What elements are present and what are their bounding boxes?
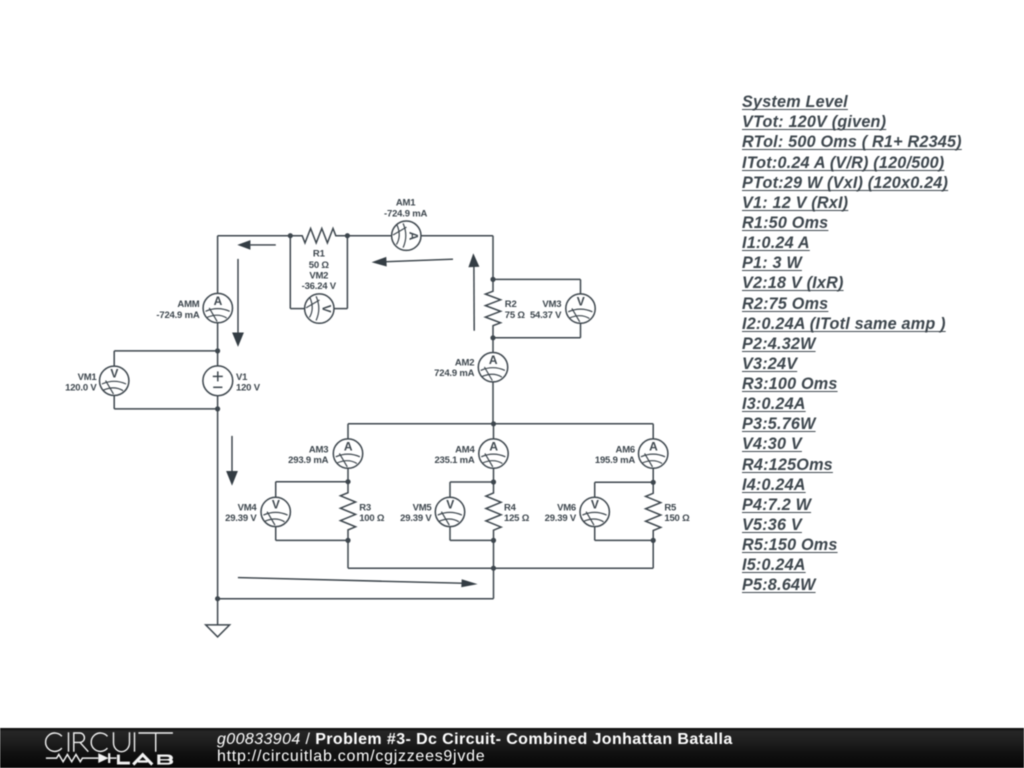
svg-text:VM4: VM4 [238,503,258,514]
svg-text:R4: R4 [504,503,517,514]
svg-text:VM2: VM2 [309,271,328,282]
wire [595,539,654,541]
svg-text:A: A [649,439,658,453]
wire [652,424,654,439]
svg-text:A: A [407,232,421,241]
wire [217,396,219,599]
svg-text:V: V [591,498,599,512]
svg-text:VM1: VM1 [78,372,98,383]
svg-text:75 Ω: 75 Ω [505,310,526,321]
wire [348,423,653,425]
voltmeter VM2 [302,271,337,324]
wire [493,568,495,599]
ammeter AM3 [288,439,363,468]
wire [594,526,596,540]
svg-text:AM3: AM3 [309,444,328,455]
svg-text:A: A [489,353,498,367]
resistor R3 [340,482,384,541]
voltmeter VM4 [225,497,290,526]
resistor R4 [486,482,530,540]
svg-text:R3: R3 [359,503,371,514]
wire [334,308,347,310]
current direction arrow [238,578,478,588]
svg-text:AM1: AM1 [396,198,416,209]
ammeter AM4 [434,439,508,468]
ammeter AM2 [434,353,508,382]
svg-text:29.39 V: 29.39 V [545,513,577,524]
svg-text:120 V: 120 V [236,382,261,393]
footer bar [0,728,1024,768]
wire [580,279,582,294]
wire [595,481,654,483]
wire [113,396,115,409]
wire [492,236,494,280]
junction [491,421,496,426]
resistor R2 [485,279,525,337]
wire [290,308,304,310]
junction [288,233,293,238]
junction [215,596,220,601]
svg-text:A: A [489,439,498,453]
voltmeter VM3 [530,294,595,323]
voltmeter VM5 [400,497,465,526]
wire [493,278,581,280]
wire [114,350,217,352]
wire [594,482,596,497]
svg-text:A: A [214,294,223,308]
svg-text:V1: V1 [236,372,248,383]
wire [276,481,348,483]
svg-text:R5: R5 [664,503,677,514]
wire [493,540,495,568]
svg-text:-724.9 mA: -724.9 mA [156,310,199,321]
ground [206,599,230,637]
svg-text:AMM: AMM [177,299,199,310]
wire [580,323,582,338]
svg-text:235.1 mA: 235.1 mA [434,455,474,466]
ammeter AMM [156,293,232,322]
wire [275,482,277,498]
system level analysis notes [742,92,962,596]
svg-text:150 Ω: 150 Ω [664,513,690,524]
svg-text:29.39 V: 29.39 V [400,513,432,524]
svg-text:V: V [446,498,454,512]
junction [491,479,496,484]
wire [218,598,494,600]
svg-text:AM4: AM4 [455,444,475,455]
svg-text:VM3: VM3 [542,299,561,310]
junction [345,479,350,484]
junction [491,566,496,571]
resistor R1 [290,229,347,271]
svg-text:724.9 mA: 724.9 mA [434,368,474,379]
CircuitLab logo [46,732,173,751]
junction [345,233,350,238]
wire [347,235,391,237]
svg-text:125 Ω: 125 Ω [504,513,530,524]
wire [347,424,349,439]
svg-text:AM6: AM6 [616,444,635,455]
wire [492,338,494,353]
svg-text:29.39 V: 29.39 V [225,513,257,524]
wire [276,539,348,541]
svg-text:V: V [110,367,118,381]
wire [652,540,654,568]
current direction arrow [372,257,453,267]
svg-text:100 Ω: 100 Ω [359,513,385,524]
wire [493,424,495,439]
wire [346,236,348,309]
svg-text:50 Ω: 50 Ω [309,260,330,271]
wire [289,236,291,309]
svg-text:54.37 V: 54.37 V [530,310,562,321]
junction [651,480,656,485]
svg-text:R2: R2 [505,299,517,310]
junction [345,538,350,543]
junction [491,538,496,543]
wire [347,468,349,481]
svg-text:V: V [320,305,334,313]
junction [490,277,495,282]
wire [450,481,494,483]
svg-text:R1: R1 [313,249,326,260]
wire [348,567,653,569]
svg-text:V: V [272,498,280,512]
wire [493,468,495,482]
junction [215,406,220,411]
footer title text [217,731,733,765]
wire [218,235,291,237]
svg-text:VM6: VM6 [557,503,576,514]
wire [217,323,219,366]
current direction arrow [232,259,244,347]
svg-text:AM2: AM2 [455,358,474,369]
svg-text:195.9 mA: 195.9 mA [595,455,635,466]
wire [449,482,451,497]
svg-text:-724.9 mA: -724.9 mA [384,208,427,219]
junction [215,348,220,353]
wire [449,527,451,541]
wire [492,382,494,424]
current direction arrow [468,253,479,330]
svg-text:-36.24 V: -36.24 V [302,281,337,292]
junction [490,335,495,340]
wire [450,539,494,541]
junction [651,538,656,543]
wire [652,468,654,482]
voltmeter VM1 [65,366,129,395]
wire [217,236,219,294]
voltage source V1 [203,366,261,396]
wire [275,527,277,541]
svg-text:V: V [577,294,585,308]
svg-text:VM5: VM5 [413,503,433,514]
ammeter AM1 [384,198,427,251]
wire [114,408,217,410]
wire [113,351,115,366]
wire [347,540,349,568]
svg-text:A: A [344,439,353,453]
resistor R5 [646,482,690,540]
svg-text:120.0 V: 120.0 V [65,382,97,393]
wire [421,235,493,237]
current direction arrow [226,436,238,486]
svg-text:293.9 mA: 293.9 mA [288,455,328,466]
current direction arrow [237,240,275,250]
voltmeter VM6 [545,497,610,526]
wire [493,337,581,339]
ammeter AM6 [595,439,668,468]
